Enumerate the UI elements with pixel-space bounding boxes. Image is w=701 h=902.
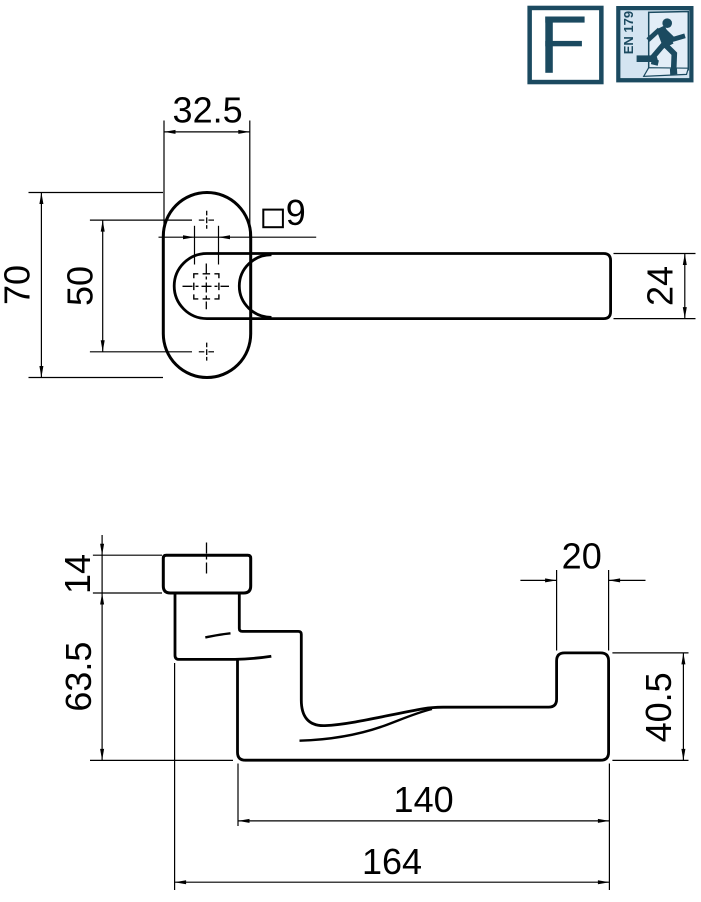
dim 32.5 extension line right <box>249 121 251 238</box>
logo EN179 push bar <box>637 55 653 62</box>
logo EN179 man front leg <box>665 45 674 72</box>
dim 32.5 arrow left <box>164 130 176 134</box>
spindle centerline vertical <box>205 264 207 310</box>
logo F letter top bar <box>545 17 584 23</box>
logo EN179 man front foot <box>670 68 677 75</box>
svg-text:50: 50 <box>59 266 100 306</box>
svg-text:70: 70 <box>0 265 38 305</box>
dim 20 extension line right <box>608 570 610 651</box>
dim 40.5 extension line top <box>612 652 688 654</box>
logo EN179 man head <box>662 18 672 28</box>
tangent edge curve lower (bottom view) <box>300 709 433 741</box>
dim 24 extension line bottom <box>614 318 696 320</box>
svg-text:EN 179: EN 179 <box>621 11 636 54</box>
dim 24 arrow top <box>683 254 687 266</box>
bottom screw hole center mark <box>206 343 208 361</box>
logo F box border <box>527 6 603 85</box>
dim 24 extension line top <box>614 253 696 255</box>
spindle centerline horizontal <box>183 285 230 287</box>
logo EN179 man back foot <box>651 59 659 66</box>
dim 164 arrow right <box>598 880 610 884</box>
dim 70 arrow top <box>39 193 43 205</box>
rosette oval (top view) <box>163 193 250 378</box>
dim 140/164 extension line right <box>608 764 610 891</box>
dim 63.5 arrow bottom (pointing down) <box>100 749 104 761</box>
dim 20 arrow left (pointing right) <box>545 578 557 582</box>
logo EN179 box interior <box>620 10 689 78</box>
svg-text:9: 9 <box>286 192 306 233</box>
svg-text:40.5: 40.5 <box>638 672 679 742</box>
dim 14 extension line bottom <box>93 592 162 594</box>
logo EN179 man front arm <box>664 30 686 39</box>
svg-text:24: 24 <box>639 266 680 306</box>
rosette side view (bottom view) <box>163 555 250 593</box>
dim 70 extension line bottom <box>29 377 164 379</box>
dim 24 arrow bottom <box>683 307 687 319</box>
dim 32.5 dimension line <box>164 131 250 133</box>
lever handle outline (top view) <box>174 254 610 319</box>
dim square-9 arrow right <box>219 235 231 239</box>
dim 24 dimension line <box>684 254 686 319</box>
square symbol <box>263 210 283 228</box>
dim 50 arrow bottom <box>101 340 105 352</box>
dim 50 arrow top <box>101 220 105 232</box>
spindle square hole (dashed) <box>194 274 219 299</box>
dim 32.5 arrow right <box>238 130 250 134</box>
dim 20 dimension line right <box>609 579 646 581</box>
dim 164 extension line left <box>174 663 176 890</box>
dim 164 dimension line <box>175 881 610 883</box>
dim 70 dimension line <box>40 193 42 378</box>
lever grip left end arc (top view) <box>239 255 271 318</box>
dim 40.5 arrow bottom <box>681 749 685 761</box>
dim 14 extension line top <box>93 554 162 556</box>
dim 14/63.5 arrow middle (pointing up) <box>100 593 104 605</box>
dim 164 arrow left <box>175 880 187 884</box>
dim 32.5 extension line left <box>163 121 165 238</box>
dim 40.5 dimension line <box>682 653 684 761</box>
dim 14/63.5 dimension line <box>101 535 103 760</box>
logo F letter middle bar <box>545 41 582 46</box>
dim square-9 arrow left <box>183 235 195 239</box>
rosette centerline (bottom view) <box>206 543 208 574</box>
logo EN179 man torso <box>656 26 673 49</box>
svg-text:20: 20 <box>562 535 602 576</box>
logo EN179 door frame <box>649 12 689 71</box>
logo F letter stem <box>545 17 553 73</box>
logo EN179 box border <box>616 6 693 82</box>
logo F box interior <box>532 10 599 80</box>
logo EN179 door floor <box>644 68 689 77</box>
dim 70 arrow bottom <box>39 366 43 378</box>
dim 140 extension line left <box>237 764 239 827</box>
dim 70 extension line top <box>29 192 164 194</box>
dim 40.5 extension line bottom <box>612 759 688 761</box>
dim square-9 extension line left <box>194 226 196 265</box>
dim 14 arrow top (outside, pointing down) <box>100 544 104 556</box>
logo EN179 man back leg <box>654 44 664 62</box>
svg-text:140: 140 <box>394 779 454 820</box>
logo EN179 man back arm <box>648 30 660 41</box>
handle profile main outline (bottom view) <box>238 593 609 760</box>
svg-text:63.5: 63.5 <box>58 642 99 712</box>
dim 40.5 arrow top <box>681 653 685 665</box>
top screw hole center mark <box>206 211 208 229</box>
dim 20 extension line left <box>556 570 558 651</box>
dim 50 dimension line <box>102 220 104 352</box>
tangent edge arc upper (bottom view) <box>205 633 230 637</box>
dim square-9 dimension line <box>159 236 317 238</box>
dim 63.5 extension line bottom <box>90 759 233 761</box>
dim 50 extension line top <box>90 219 192 221</box>
svg-text:164: 164 <box>362 841 422 882</box>
svg-text:14: 14 <box>57 554 98 594</box>
dim 20 arrow right (pointing left) <box>609 578 621 582</box>
dim 140 dimension line <box>238 820 609 822</box>
svg-text:32.5: 32.5 <box>173 90 243 131</box>
dim 50 extension line bottom <box>90 351 192 353</box>
dim square-9 extension line right <box>218 226 220 265</box>
dim 140 arrow right <box>598 819 610 823</box>
handle profile left outline (bottom view) <box>175 593 271 659</box>
dim 140 arrow left <box>238 819 250 823</box>
dim 20 dimension line left <box>520 579 556 581</box>
